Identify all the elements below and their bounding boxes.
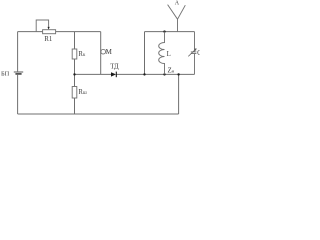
svg-text:L: L <box>167 51 171 58</box>
wire: diode row from junction to diode <box>75 73 112 75</box>
R1 wiper arrowhead <box>48 27 50 30</box>
wire: top rail R1 to right corner <box>56 31 101 33</box>
wire: R1 wiper loop <box>36 20 48 32</box>
capacitor plates <box>191 51 197 53</box>
svg-text:Rш: Rш <box>78 89 87 96</box>
inductor L <box>159 32 171 75</box>
resistor Rsh <box>72 87 87 99</box>
wire: tank left side <box>144 32 146 75</box>
svg-text:ТД: ТД <box>110 64 119 71</box>
capacitor C (variable) <box>188 32 202 75</box>
wire: diode to tank bottom rail <box>116 73 194 75</box>
wire: tank top rail <box>145 31 195 33</box>
wire: Rk branch lower to junction <box>74 59 76 74</box>
wire: bottom rail <box>18 113 179 115</box>
svg-text:А: А <box>175 1 180 7</box>
tunnel diode TD <box>110 64 119 78</box>
battery short thick plate <box>15 73 21 75</box>
node: dot at right down-leg <box>177 73 179 75</box>
node: junction dot Rk/Rsh/diode row <box>73 73 75 75</box>
svg-text:R1: R1 <box>44 35 53 43</box>
svg-text:БП: БП <box>1 70 10 77</box>
battery long plate <box>14 71 23 73</box>
trimmer arrow <box>188 49 195 56</box>
resistor Rk <box>72 49 86 59</box>
svg-text:C: C <box>197 50 200 57</box>
resistor R1 (variable, with wiper loop) <box>36 20 55 43</box>
antenna A <box>168 1 186 32</box>
wire: Rsh branch upper <box>74 74 76 86</box>
wire: left side upper (to battery) <box>17 32 19 72</box>
wire: middle branch vertical <box>100 32 102 75</box>
wire: Rk branch upper <box>74 32 76 49</box>
node: dot at coil top <box>163 30 165 32</box>
svg-text:М: М <box>106 48 113 56</box>
battery BP (power supply) <box>1 70 23 77</box>
node: dot at coil bottom <box>163 73 165 75</box>
wire: left side lower (battery to bottom rail) <box>17 75 19 114</box>
svg-text:Zн: Zн <box>168 67 175 75</box>
wire: Rsh branch lower <box>74 98 76 114</box>
wire: right down-leg to bottom rail <box>178 74 180 114</box>
svg-text:Rк: Rк <box>78 51 86 58</box>
meter M (circle) on middle branch <box>101 48 113 56</box>
wire: top rail left of R1 <box>18 31 43 33</box>
node: dot at tank bottom-left <box>143 73 145 75</box>
R1 body <box>43 30 56 34</box>
